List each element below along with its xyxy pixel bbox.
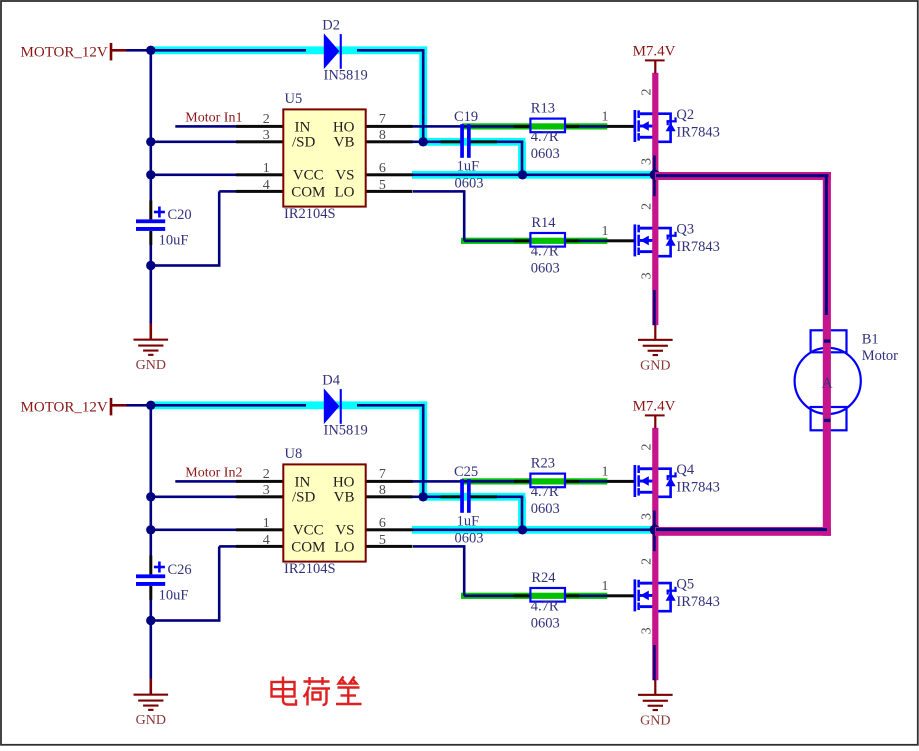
wire (green net, R23 gate net) bbox=[462, 478, 607, 484]
svg-text:4.7R: 4.7R bbox=[531, 244, 559, 260]
transistor Q4 IR7843 (N-MOSFET with body diode) bbox=[634, 465, 677, 497]
node: VCC junction bbox=[146, 170, 155, 179]
svg-text:M7.4V: M7.4V bbox=[633, 399, 676, 415]
svg-text:VS: VS bbox=[335, 523, 354, 539]
ground stub (left GND) bbox=[150, 324, 153, 340]
svg-text:1: 1 bbox=[263, 516, 270, 531]
wire (green net, R14 gate net) bbox=[461, 238, 607, 244]
gate lead of Q4 bbox=[607, 480, 634, 483]
motor B1 bbox=[795, 330, 861, 430]
svg-text:1uF: 1uF bbox=[457, 158, 480, 174]
svg-text:5: 5 bbox=[379, 178, 386, 193]
svg-text:5: 5 bbox=[379, 533, 386, 548]
wire /SD net bbox=[151, 141, 236, 144]
svg-text:/SD: /SD bbox=[292, 135, 316, 151]
svg-text:2: 2 bbox=[263, 112, 270, 127]
wire switch node 1 to motor (magenta) bbox=[655, 172, 831, 536]
svg-text:Motor In2: Motor In2 bbox=[185, 466, 242, 481]
pin names of U5 bbox=[291, 119, 354, 200]
node: /SD junction bbox=[146, 137, 155, 146]
svg-text:HO: HO bbox=[333, 474, 355, 490]
wire M7.4V drain bus through Q4/Q5 (magenta net color) bbox=[652, 428, 658, 680]
pins of R23 bbox=[514, 480, 579, 483]
wire VCC net bbox=[151, 529, 236, 532]
svg-text:0603: 0603 bbox=[531, 146, 560, 162]
wire /SD net bbox=[151, 496, 236, 499]
svg-text:IN: IN bbox=[295, 119, 311, 135]
wire Q5 source to GND segment on bus bbox=[653, 645, 656, 680]
svg-text:1: 1 bbox=[602, 224, 609, 239]
svg-text:3: 3 bbox=[639, 272, 654, 279]
wire R24 to Q5 gate bbox=[579, 595, 608, 598]
svg-text:3: 3 bbox=[639, 158, 654, 165]
motor B1 terminal marks and rotor letter bbox=[822, 340, 833, 423]
svg-text:10uF: 10uF bbox=[159, 588, 189, 604]
svg-text:A: A bbox=[822, 376, 833, 392]
wire C25 to VS (corner) bbox=[497, 496, 523, 530]
gate lead of Q2 bbox=[607, 125, 634, 128]
svg-text:VB: VB bbox=[334, 135, 355, 151]
ground symbol (left) bbox=[134, 339, 169, 374]
ground symbol (left) bbox=[134, 694, 169, 729]
svg-text:8: 8 bbox=[379, 483, 386, 498]
svg-text:0603: 0603 bbox=[455, 176, 484, 192]
capacitor C26 10uF (polarized) bbox=[136, 562, 165, 586]
wire Motor In1 input bbox=[175, 125, 236, 128]
svg-text:GND: GND bbox=[640, 713, 670, 728]
wire Motor In2 input bbox=[175, 480, 236, 483]
svg-text:3: 3 bbox=[263, 483, 270, 498]
svg-text:IR7843: IR7843 bbox=[676, 594, 720, 610]
svg-text:0603: 0603 bbox=[455, 531, 484, 547]
diode D4 IN5819 bbox=[324, 388, 342, 424]
gate lead of Q3 bbox=[607, 239, 634, 242]
power port M7.4V bbox=[645, 59, 665, 73]
wire C20 to GND bbox=[150, 245, 153, 324]
ground stub (left GND) bbox=[150, 679, 153, 695]
svg-text:7: 7 bbox=[379, 467, 386, 482]
svg-text:LO: LO bbox=[335, 539, 355, 555]
svg-text:IR7843: IR7843 bbox=[676, 480, 720, 496]
wire D4 cathode to VB (vertical) bbox=[422, 404, 425, 497]
svg-text:R24: R24 bbox=[531, 570, 556, 586]
capacitor C20 10uF (polarized) bbox=[136, 207, 165, 231]
pin names of U8 bbox=[291, 474, 354, 555]
pins of U5 (left: 2,3,1,4) bbox=[236, 125, 284, 193]
pins of C20 bbox=[149, 201, 152, 245]
svg-text:8: 8 bbox=[379, 128, 386, 143]
svg-text:U8: U8 bbox=[285, 446, 303, 462]
svg-text:IN: IN bbox=[295, 474, 311, 490]
resistor R14 4.7R bbox=[530, 233, 565, 247]
svg-text:D2: D2 bbox=[322, 18, 340, 34]
wire HO to R23 bbox=[412, 480, 514, 483]
node: /SD junction bbox=[146, 492, 155, 501]
svg-text:0603: 0603 bbox=[531, 615, 560, 631]
svg-text:4: 4 bbox=[263, 533, 270, 548]
wire VS net bbox=[412, 174, 656, 177]
transistor Q3 IR7843 (N-MOSFET with body diode) bbox=[634, 224, 677, 256]
svg-text:4.7R: 4.7R bbox=[531, 129, 559, 145]
resistor R24 4.7R bbox=[530, 588, 565, 602]
svg-text:3: 3 bbox=[263, 128, 270, 143]
pins of C19 bbox=[441, 140, 498, 143]
wire LO to R14 bbox=[413, 190, 514, 242]
node: COM/cap junction bbox=[146, 261, 155, 270]
svg-text:7: 7 bbox=[379, 112, 386, 127]
node: VB / D2 junction bbox=[419, 137, 428, 146]
svg-text:Q3: Q3 bbox=[676, 222, 694, 238]
svg-text:IN5819: IN5819 bbox=[324, 68, 368, 84]
svg-text:IR7843: IR7843 bbox=[676, 239, 720, 255]
diode D2 IN5819 bbox=[324, 33, 342, 69]
wire M7.4V drain bus through Q2/Q3 (magenta net color) bbox=[652, 73, 658, 325]
svg-text:Q4: Q4 bbox=[676, 462, 694, 478]
node: MOTOR_12V junction bbox=[146, 401, 155, 410]
node: switch node junction on bus bbox=[650, 170, 660, 180]
svg-text:4.7R: 4.7R bbox=[531, 484, 559, 500]
svg-text:GND: GND bbox=[640, 358, 670, 373]
wire VCC net bbox=[151, 174, 236, 177]
pins of C25 bbox=[441, 495, 498, 498]
svg-text:C26: C26 bbox=[168, 562, 192, 578]
svg-text:MOTOR_12V: MOTOR_12V bbox=[21, 44, 108, 60]
capacitor C19 1uF bbox=[460, 124, 471, 158]
op-amp driver IC U5 IR2104S bbox=[283, 109, 365, 206]
resistor R13 4.7R bbox=[530, 119, 565, 133]
wire HO to R13 bbox=[412, 125, 514, 128]
wire VS net bbox=[412, 529, 656, 532]
pins of R24 bbox=[514, 594, 579, 597]
wire (green net, R13 gate net) bbox=[462, 123, 607, 129]
svg-text:IN5819: IN5819 bbox=[324, 423, 368, 439]
svg-text:Q5: Q5 bbox=[676, 577, 694, 593]
svg-text:4.7R: 4.7R bbox=[531, 599, 559, 615]
svg-text:VS: VS bbox=[335, 168, 354, 184]
svg-text:GND: GND bbox=[136, 358, 166, 373]
wire R14 to Q3 gate bbox=[579, 240, 608, 243]
svg-text:0603: 0603 bbox=[531, 260, 560, 276]
svg-text:IR2104S: IR2104S bbox=[284, 206, 336, 222]
svg-text:M7.4V: M7.4V bbox=[633, 44, 676, 60]
svg-text:IR2104S: IR2104S bbox=[284, 561, 336, 577]
pin numbers of U5 left bbox=[263, 112, 270, 193]
svg-text:6: 6 bbox=[379, 516, 386, 531]
svg-text:1: 1 bbox=[602, 465, 609, 480]
ground stub (right GND) bbox=[654, 325, 656, 340]
wire MOTOR_12V rail segments bbox=[126, 404, 425, 407]
pin numbers of U5 right bbox=[379, 112, 386, 193]
power port M7.4V bbox=[645, 414, 665, 428]
svg-text:3: 3 bbox=[639, 513, 654, 520]
wire (cyan net highlight, D4 bootstrap rail) bbox=[148, 401, 526, 533]
wire VB to C19 bbox=[412, 141, 441, 144]
node: C19 to VS junction bbox=[518, 170, 527, 179]
svg-text:IR7843: IR7843 bbox=[676, 125, 720, 141]
svg-text:2: 2 bbox=[639, 203, 654, 210]
svg-text:COM: COM bbox=[291, 184, 325, 200]
pin numbers of U8 left bbox=[263, 467, 270, 548]
svg-text:1: 1 bbox=[602, 110, 609, 125]
svg-text:Motor In1: Motor In1 bbox=[185, 111, 242, 126]
label 电荷垒 (red annotation) bbox=[272, 677, 362, 706]
wire switch-node segment on bus bbox=[653, 156, 656, 197]
wire VB to C25 bbox=[412, 496, 441, 499]
wire (cyan net highlight, D2 bootstrap rail) bbox=[148, 46, 526, 178]
wire LO to R24 bbox=[413, 545, 514, 597]
wire D2 cathode to VB (vertical) bbox=[422, 49, 425, 142]
wire (cyan net highlight, VS switch node of U8) bbox=[412, 526, 658, 534]
wire R23 to Q4 gate bbox=[579, 480, 608, 483]
node: MOTOR_12V junction bbox=[146, 46, 155, 55]
wire COM return bbox=[151, 190, 236, 267]
svg-text:D4: D4 bbox=[322, 373, 340, 389]
wire switch-node segment on bus bbox=[653, 511, 656, 552]
svg-text:VCC: VCC bbox=[293, 523, 324, 539]
svg-text:U5: U5 bbox=[285, 91, 303, 107]
ground symbol (right) bbox=[638, 694, 673, 729]
svg-text:C19: C19 bbox=[454, 109, 478, 125]
pins of U8 (left: 2,3,1,4) bbox=[236, 480, 284, 548]
op-amp driver IC U8 IR2104S bbox=[283, 464, 365, 561]
pins of U8 (right: 7,8,6,5) bbox=[366, 480, 413, 548]
wire left supply column bbox=[150, 405, 153, 555]
svg-text:/SD: /SD bbox=[292, 490, 316, 506]
svg-text:0603: 0603 bbox=[531, 501, 560, 517]
pins of R13 bbox=[514, 125, 579, 128]
port MOTOR_12V bbox=[110, 398, 127, 416]
svg-text:1: 1 bbox=[263, 161, 270, 176]
transistor Q2 IR7843 (N-MOSFET with body diode) bbox=[634, 110, 677, 142]
wire R13 to Q2 gate bbox=[579, 125, 608, 128]
gate lead of Q5 bbox=[607, 594, 634, 597]
svg-text:2: 2 bbox=[263, 467, 270, 482]
svg-text:6: 6 bbox=[379, 161, 386, 176]
svg-text:1: 1 bbox=[602, 579, 609, 594]
wire MOTOR_12V rail segments bbox=[126, 49, 425, 52]
wire motor to switch node 2 (magenta) bbox=[655, 527, 831, 536]
wire (cyan net highlight, VS switch node of U5) bbox=[412, 171, 658, 179]
port MOTOR_12V bbox=[110, 43, 127, 61]
node: VCC junction bbox=[146, 525, 155, 534]
wire (green net, R24 gate net) bbox=[461, 593, 607, 599]
svg-text:2: 2 bbox=[639, 89, 654, 96]
wire C26 to GND bbox=[150, 600, 153, 679]
svg-text:C25: C25 bbox=[454, 464, 478, 480]
svg-text:HO: HO bbox=[333, 119, 355, 135]
pins of U5 (right: 7,8,6,5) bbox=[366, 125, 413, 193]
node: VB / D4 junction bbox=[419, 492, 428, 501]
node: C25 to VS junction bbox=[518, 525, 527, 534]
pin numbers of U8 right bbox=[379, 467, 386, 548]
wire navy core, switch node 1 branch bbox=[656, 174, 828, 315]
node: switch node junction on bus bbox=[650, 525, 660, 535]
svg-text:MOTOR_12V: MOTOR_12V bbox=[21, 399, 108, 415]
svg-text:GND: GND bbox=[136, 713, 166, 728]
resistor R23 4.7R bbox=[530, 474, 565, 488]
svg-text:VCC: VCC bbox=[293, 168, 324, 184]
svg-text:COM: COM bbox=[291, 539, 325, 555]
svg-text:2: 2 bbox=[639, 558, 654, 565]
ground stub (right GND) bbox=[654, 680, 656, 695]
svg-text:R14: R14 bbox=[531, 215, 556, 231]
wire navy core, switch node 2 branch bbox=[656, 528, 827, 531]
node: COM/cap junction bbox=[146, 616, 155, 625]
svg-text:4: 4 bbox=[263, 178, 270, 193]
svg-text:B1: B1 bbox=[862, 332, 879, 348]
svg-text:Q2: Q2 bbox=[676, 107, 694, 123]
transistor Q5 IR7843 (N-MOSFET with body diode) bbox=[634, 579, 677, 611]
pins of C26 bbox=[149, 556, 152, 600]
svg-text:10uF: 10uF bbox=[159, 233, 189, 249]
svg-text:LO: LO bbox=[335, 184, 355, 200]
svg-text:Motor: Motor bbox=[862, 348, 898, 364]
svg-text:R13: R13 bbox=[531, 101, 555, 117]
capacitor C25 1uF bbox=[460, 479, 471, 513]
wire left supply column bbox=[150, 50, 153, 200]
svg-text:C20: C20 bbox=[168, 207, 192, 223]
svg-text:1uF: 1uF bbox=[457, 513, 480, 529]
ground symbol (right) bbox=[638, 339, 673, 374]
svg-text:2: 2 bbox=[639, 444, 654, 451]
pins of R14 bbox=[514, 239, 579, 242]
svg-text:R23: R23 bbox=[531, 456, 555, 472]
wire COM return bbox=[151, 545, 236, 622]
svg-text:3: 3 bbox=[639, 627, 654, 634]
wire C19 to VS (corner) bbox=[497, 141, 523, 175]
wire Q3 source to GND segment on bus bbox=[653, 290, 656, 325]
svg-text:VB: VB bbox=[334, 490, 355, 506]
